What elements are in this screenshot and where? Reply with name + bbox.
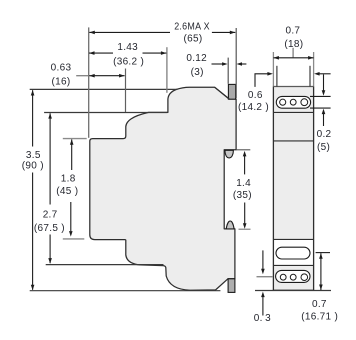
svg-text:0.6: 0.6 — [248, 90, 263, 101]
svg-text:0.3: 0.3 — [254, 313, 271, 324]
svg-text:(5): (5) — [317, 142, 330, 153]
svg-text:0.7: 0.7 — [312, 299, 327, 310]
svg-text:(67.5 ): (67.5 ) — [34, 223, 65, 234]
svg-text:2.7: 2.7 — [43, 210, 58, 221]
svg-text:0.12: 0.12 — [186, 53, 207, 64]
svg-text:(36.2 ): (36.2 ) — [113, 57, 144, 68]
svg-text:(90 ): (90 ) — [22, 161, 44, 172]
svg-text:2.6MA X: 2.6MA X — [174, 22, 210, 33]
svg-text:(16): (16) — [52, 76, 71, 87]
svg-text:1.43: 1.43 — [117, 42, 138, 53]
svg-text:1.4: 1.4 — [236, 178, 251, 189]
svg-text:(35): (35) — [233, 190, 252, 201]
svg-text:(18): (18) — [284, 39, 303, 50]
svg-text:(16.71 ): (16.71 ) — [301, 311, 338, 322]
svg-text:(3): (3) — [191, 67, 204, 78]
svg-text:3.5: 3.5 — [26, 150, 41, 161]
svg-text:0.63: 0.63 — [51, 63, 72, 74]
svg-text:(45 ): (45 ) — [56, 186, 78, 197]
svg-text:1.8: 1.8 — [61, 174, 76, 185]
svg-text:0.7: 0.7 — [285, 26, 300, 37]
svg-text:(65): (65) — [184, 34, 203, 45]
svg-text:(14.2 ): (14.2 ) — [238, 102, 269, 113]
svg-text:0.2: 0.2 — [317, 129, 332, 140]
